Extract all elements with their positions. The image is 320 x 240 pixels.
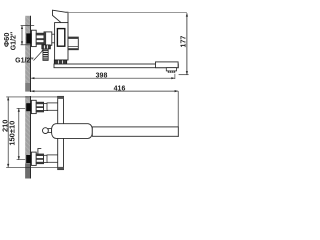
svg-text:G1/2″: G1/2″ (15, 58, 34, 65)
svg-text:177: 177 (181, 36, 188, 48)
svg-text:150±10: 150±10 (7, 121, 16, 146)
svg-text:416: 416 (114, 86, 126, 93)
svg-text:398: 398 (96, 72, 108, 79)
svg-text:G1/2″: G1/2″ (10, 31, 17, 50)
